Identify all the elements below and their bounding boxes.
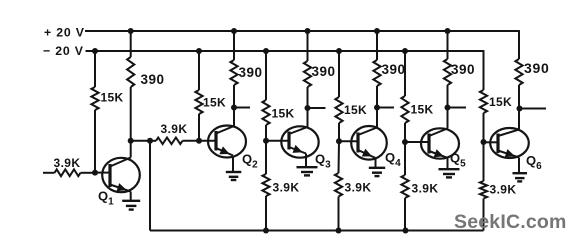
node Q5 base <box>402 139 408 145</box>
svg-text:390: 390 <box>382 62 406 77</box>
wire R15K Q5 to base node <box>404 123 406 142</box>
wire Q3 base <box>266 140 289 142</box>
output stub Q3 <box>308 107 326 109</box>
resistor 15K (Q5 base pull) <box>401 96 408 123</box>
wire -20V to R15K Q1 <box>94 51 96 87</box>
junction -20V/R15K-Q4 <box>336 48 342 54</box>
wire Q5 emitter down <box>447 158 449 169</box>
transistor Q3 <box>281 126 318 157</box>
svg-text:3.9K: 3.9K <box>490 183 517 197</box>
svg-text:3.9K: 3.9K <box>54 156 81 170</box>
resistor 15K (Q6 base pull) <box>480 90 487 113</box>
svg-text:15K: 15K <box>489 95 512 109</box>
resistor 15K (Q3 base pull) <box>262 100 269 125</box>
wire Q5 base <box>405 141 429 143</box>
junction +20V/R390-Q4 <box>374 28 380 34</box>
wire Q1 base <box>95 172 110 174</box>
wire +20V to R390 Q5 <box>447 31 449 59</box>
wire R3.9K Q6 to bottom rail <box>483 199 485 231</box>
wire R3.9K Q3 to bottom rail <box>265 196 267 231</box>
junction bottom rail Q3 <box>263 228 269 234</box>
+20V rail <box>85 30 519 32</box>
node Q4 base <box>336 138 342 144</box>
node feedback/base-drive A <box>147 138 153 144</box>
wire -20V to R15K Q3 <box>265 51 267 100</box>
transistor Q5 <box>421 128 459 158</box>
resistor 390 (Q1 collector load) <box>127 57 134 87</box>
wire R3.9K Q4 to bottom rail <box>338 197 340 231</box>
wire R390 Q1 to collector node <box>130 87 132 141</box>
svg-text:390: 390 <box>451 62 475 77</box>
wire R15K Q1 to base node <box>94 110 96 173</box>
wire Q2 base <box>199 140 216 142</box>
junction -20V/R15K-Q3 <box>263 48 269 54</box>
wire node A down <box>149 141 151 231</box>
wire R3.9K Q5 to bottom rail <box>404 198 406 231</box>
wire series resistor to Q2 base node <box>183 140 200 142</box>
node Q6 collector output <box>517 106 523 112</box>
ground Q2 <box>226 171 242 173</box>
wire -20V to R15K Q5 <box>404 51 406 96</box>
svg-text:15K: 15K <box>411 103 434 117</box>
wire Q3 base node down <box>265 141 267 174</box>
wire +20V corner to R390 Q6 <box>518 57 520 59</box>
wire R390 Q4 to output node <box>376 86 378 128</box>
svg-text:3.9K: 3.9K <box>273 181 300 195</box>
wire R15K Q6 to base node <box>483 113 485 142</box>
resistor 15K (Q4 base pull) <box>335 97 342 123</box>
node Q6 base <box>481 139 487 145</box>
wire R15K Q2 to base node <box>198 114 200 141</box>
svg-text:SeekIC.com: SeekIC.com <box>454 211 567 233</box>
ground Q5 <box>439 168 460 170</box>
resistor 390 (Q6 collector load) <box>515 59 522 85</box>
resistor 15K (Q2 base pull) <box>195 90 202 114</box>
transistor Q6 <box>490 128 529 158</box>
resistor 390 (Q2 collector load) <box>230 60 237 85</box>
resistor 15K (Q1 base pull) <box>91 87 98 110</box>
junction bottom rail Q4 <box>336 228 342 234</box>
wire node A to series resistor <box>150 140 156 142</box>
ground Q1 <box>122 200 140 202</box>
wire -20V to R15K Q2 <box>198 51 200 90</box>
svg-text:15K: 15K <box>272 107 295 121</box>
junction +20V/R390-Q1 <box>128 28 134 34</box>
input wire <box>43 172 55 174</box>
base-drive bottom rail <box>150 230 484 232</box>
output stub Q2 <box>234 107 250 109</box>
svg-text:− 20 V: − 20 V <box>43 44 84 58</box>
wire Q2 emitter down <box>232 156 234 172</box>
resistor 390 (Q4 collector load) <box>373 60 380 86</box>
wire input resistor to Q1 base node <box>81 172 96 174</box>
junction -20V/R15K-Q2 <box>196 48 202 54</box>
ground Q4 <box>369 167 385 169</box>
node Q2 collector output <box>231 105 237 111</box>
wire Q1 collector up <box>130 141 132 158</box>
junction +20V/R390-Q2 <box>231 28 237 34</box>
output stub Q6 <box>520 108 547 110</box>
wire R390 Q5 to output node <box>447 85 449 129</box>
svg-text:3.9K: 3.9K <box>345 181 372 195</box>
resistor 3.9K series (Q2 base) <box>156 138 183 145</box>
node Q4 collector output <box>374 105 380 111</box>
node Q5 collector output <box>445 105 451 111</box>
wire +20V to R390 Q3 <box>307 31 309 61</box>
resistor 390 (Q5 collector load) <box>444 59 451 85</box>
svg-text:15K: 15K <box>101 91 124 105</box>
transistor Q4 <box>351 126 387 160</box>
wire +20V to R390 Q1 <box>130 31 132 57</box>
wire Q4 emitter down <box>375 158 377 168</box>
junction +20V/R390-Q3 <box>305 28 311 34</box>
junction -20V/R15K-Q1 <box>92 48 98 54</box>
junction bottom rail Q5 <box>403 228 409 234</box>
resistor 3.9K input (Q1 base series) <box>55 169 81 176</box>
wire -20V to R15K Q4 <box>338 51 340 97</box>
wire Q3 emitter down <box>305 154 307 168</box>
-20V rail <box>86 50 484 52</box>
wire +20V to R390 Q2 <box>233 31 235 60</box>
ground Q3 <box>297 166 318 168</box>
node Q1 collector <box>128 138 134 144</box>
wire R15K Q4 to base node <box>338 123 340 141</box>
resistor 3.9K (Q5 base drive) <box>401 175 408 198</box>
transistor Q1 <box>102 158 140 192</box>
svg-text:390: 390 <box>524 60 549 76</box>
wire -20V corner to R15K Q6 <box>483 88 485 90</box>
wire Q6 base <box>484 141 499 143</box>
svg-text:15K: 15K <box>344 103 367 117</box>
junction -20V/R15K-Q5 <box>402 48 408 54</box>
node Q3 base <box>263 138 269 144</box>
wire R390 Q6 to output node <box>518 85 520 130</box>
svg-text:390: 390 <box>239 65 263 80</box>
junction +20V/R390-Q5 <box>445 28 451 34</box>
svg-text:3.9K: 3.9K <box>412 182 439 196</box>
node Q2 base <box>196 138 202 144</box>
wire Q4 base <box>339 140 358 142</box>
-20V rail corner drop to Q6 base resistor <box>483 50 485 90</box>
wire Q1 collector to feedback node <box>131 140 150 142</box>
wire R390 Q2 to output node <box>233 85 235 126</box>
wire Q6 base node down <box>483 142 485 181</box>
ground Q6 <box>513 172 528 174</box>
svg-text:3.9K: 3.9K <box>161 122 188 136</box>
output stub Q5 <box>448 107 467 109</box>
wire R390 Q3 to output node <box>307 87 309 127</box>
svg-text:390: 390 <box>141 72 165 87</box>
resistor 3.9K (Q4 base drive) <box>335 173 342 197</box>
wire Q4 base node down <box>338 141 341 173</box>
wire +20V to R390 Q4 <box>376 31 378 60</box>
node Q1 base <box>92 170 98 176</box>
wire Q1 emitter down <box>130 192 132 201</box>
resistor 3.9K (Q3 base drive) <box>262 174 269 196</box>
wire Q5 base node down <box>404 142 406 175</box>
svg-text:+ 20 V: + 20 V <box>44 26 85 40</box>
wire Q6 emitter down <box>518 158 520 173</box>
transistor Q2 <box>208 126 246 158</box>
resistor 390 (Q3 collector load) <box>304 61 311 87</box>
wire R15K Q3 to base node <box>265 125 267 141</box>
node Q3 collector output <box>305 105 311 111</box>
svg-text:390: 390 <box>312 64 336 79</box>
output stub Q4 <box>377 107 394 109</box>
resistor 3.9K (Q6 base drive) <box>480 181 487 199</box>
+20V rail corner drop to Q6 collector resistor <box>518 30 520 59</box>
svg-text:15K: 15K <box>203 96 226 110</box>
